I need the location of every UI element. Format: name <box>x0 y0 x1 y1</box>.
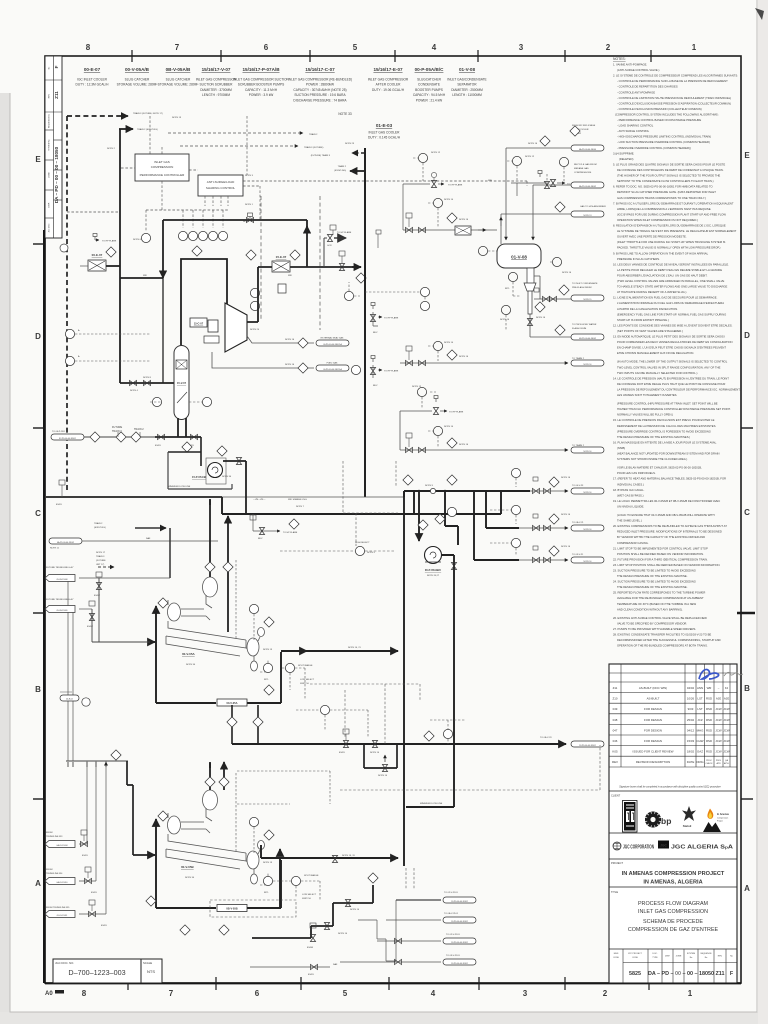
gas out to H2S absorber <box>501 214 578 244</box>
svg-text:NOTE 12: NOTE 12 <box>525 156 535 158</box>
svg-text:LENGTH : 11000MM: LENGTH : 11000MM <box>452 93 482 97</box>
svg-text:ESDV: ESDV <box>308 974 314 976</box>
svg-text:POWER : 3.9 kW: POWER : 3.9 kW <box>249 93 274 97</box>
svg-text:ESDV: ESDV <box>339 752 345 754</box>
svg-text:00-PD-00-00-18002-A: 00-PD-00-00-18002-A <box>323 343 342 346</box>
svg-text:16. PLAN MASSIQUE EN ATTENTE D: 16. PLAN MASSIQUE EN ATTENTE DE LA MSE A… <box>613 440 717 444</box>
EQUIPMENT HEADERS <box>76 67 487 140</box>
staircase distribution <box>252 885 373 938</box>
discharge trunk <box>364 148 366 497</box>
svg-text:5: 5 <box>343 989 348 998</box>
flare stub F5 <box>417 387 426 396</box>
svg-text:JCW: JCW <box>715 707 722 711</box>
svg-text:TRAIN 3: TRAIN 3 <box>96 555 105 558</box>
svg-text:NOTE 13: NOTE 13 <box>172 117 182 119</box>
svg-text:18-PD-00-00-18102: 18-PD-00-00-18102 <box>451 901 468 903</box>
svg-text:18-PD-00-00-18502: 18-PD-00-00-18502 <box>579 745 596 747</box>
svg-text:FUTURE: FUTURE <box>112 426 122 429</box>
svg-text:GOV: GOV <box>327 245 332 247</box>
svg-text:FOR DESIGN: FOR DESIGN <box>644 728 662 732</box>
svg-text:8. REGULATION D'EXPANSION A U: 8. REGULATION D'EXPANSION A UTILISER LOR… <box>613 224 726 228</box>
svg-text:POWER : 28800kW: POWER : 28800kW <box>306 83 334 87</box>
svg-text:NOTE 13: NOTE 13 <box>263 649 273 651</box>
svg-text:NOTE 10: NOTE 10 <box>350 909 360 911</box>
svg-text:(EXIST-NG): (EXIST-NG) <box>334 170 346 172</box>
svg-text:RSD: RSD <box>706 728 712 732</box>
svg-text:FUTURE TRUNKLINE 6-40": FUTURE TRUNKLINE 6-40" <box>46 567 74 569</box>
svg-text:B: B <box>35 685 41 694</box>
svg-text:Z11: Z11 <box>613 686 618 690</box>
svg-text:JCW: JCW <box>723 728 730 732</box>
svg-text:CAPACITY : 11.3 M³/H: CAPACITY : 11.3 M³/H <box>245 88 278 92</box>
svg-text:TO 0B-V-23: TO 0B-V-23 <box>540 737 552 739</box>
svg-text:NOTE 16: NOTE 16 <box>584 492 592 494</box>
svg-text:A0: A0 <box>45 991 53 997</box>
svg-text:NTS: NTS <box>147 969 155 974</box>
svg-text:3: 3 <box>523 989 528 998</box>
svg-text:- CONTROLE D'EXCLUSION PRESSIO: - CONTROLE D'EXCLUSION PRESSION (COLLECT… <box>617 107 702 111</box>
svg-text:1. VANNE ANTI-POMPAGE.: 1. VANNE ANTI-POMPAGE. <box>613 63 647 67</box>
svg-text:- LOW SUCTION PRESSURE OVERRID: - LOW SUCTION PRESSURE OVERRIDE CONTROL … <box>617 140 710 144</box>
svg-text:(PRESSURE OVERRIDE CONTROL IS: (PRESSURE OVERRIDE CONTROL IS FORESEEN T… <box>617 429 711 433</box>
svg-text:EN CHAMP DIVISE. L'UN D'EUX PE: EN CHAMP DIVISE. L'UN D'EUX PEUT ETRE CH… <box>617 346 726 350</box>
pump circuit <box>418 491 420 541</box>
svg-text:MGS: MGS <box>614 953 619 955</box>
svg-text:GAZ: GAZ <box>697 750 703 754</box>
svg-text:2: 2 <box>606 43 611 52</box>
svg-text:Signature boxes shall be compl: Signature boxes shall be completed in ac… <box>619 786 721 789</box>
svg-text:05-01-15011: 05-01-15011 <box>57 915 68 917</box>
svg-text:(PRESSURE CONTROL (HIP) PRESSU: (PRESSURE CONTROL (HIP) PRESSURE AT TRAI… <box>617 402 718 406</box>
svg-text:15/16/17-P-07A/B: 15/16/17-P-07A/B <box>242 67 280 72</box>
svg-text:JPC PROJECT: JPC PROJECT <box>628 953 642 955</box>
svg-text:DATE: DATE <box>687 760 695 764</box>
svg-text:04/02: 04/02 <box>687 686 695 690</box>
svg-text:9. BYPASS LINE TO ALLOW OPERA: 9. BYPASS LINE TO ALLOW OPERATION IN THE… <box>613 251 709 255</box>
svg-text:START-UP IS FROM EXPORT PIPELI: START-UP IS FROM EXPORT PIPELINE.) <box>617 318 669 322</box>
svg-text:AS-BUILT (DOC WIN): AS-BUILT (DOC WIN) <box>639 686 667 690</box>
svg-text:PACKED. THROTTLE VALVE IS NORM: PACKED. THROTTLE VALVE IS NORMALLY OPEN … <box>617 246 721 250</box>
svg-text:SWITCH: SWITCH <box>300 683 309 685</box>
svg-text:0A-PD-00-00-18004: 0A-PD-00-00-18004 <box>579 148 596 151</box>
svg-text:SWITCH: SWITCH <box>302 898 311 900</box>
svg-text:TO HP FLARE: TO HP FLARE <box>337 231 352 234</box>
svg-text:NOTE 10: NOTE 10 <box>338 933 348 935</box>
svg-text:- CONTROLE ANTI-POMPAGE: - CONTROLE ANTI-POMPAGE <box>617 90 655 94</box>
main gas path to suction header <box>46 496 222 498</box>
scrubber 15-V-07 <box>174 346 189 420</box>
svg-text:DE CONSIGNE DOIT ETRE REGLE PL: DE CONSIGNE DOIT ETRE REGLE PLUS HAUT QU… <box>617 382 725 386</box>
svg-text:TWO LEVEL CONTROL VALVES IN SP: TWO LEVEL CONTROL VALVES IN SPLIT RANGE … <box>617 365 721 369</box>
svg-text:- ANTI SURGE CONTROL: - ANTI SURGE CONTROL <box>617 129 650 133</box>
svg-text:(EXIST-NG): (EXIST-NG) <box>94 527 106 529</box>
svg-text:TO HP FLARE: TO HP FLARE <box>384 370 399 373</box>
svg-text:SCRUBBER BOOSTER PUMPS: SCRUBBER BOOSTER PUMPS <box>238 83 284 87</box>
svg-text:MINIMUM FLOW LINE: MINIMUM FLOW LINE <box>420 803 443 805</box>
svg-text:00-P-05A/B/C: 00-P-05A/B/C <box>425 568 441 572</box>
separator 00-V-08 <box>497 244 541 268</box>
sonatrach logo <box>623 801 638 833</box>
level instruments <box>508 272 517 281</box>
svg-text:046: 046 <box>613 739 618 743</box>
svg-text:KJ: KJ <box>725 686 729 690</box>
revision table <box>609 664 737 983</box>
slug catcher B glyph <box>166 790 265 884</box>
controller box B1 <box>135 154 189 181</box>
svg-text:AFTER COOLER: AFTER COOLER <box>376 83 401 87</box>
svg-text:3: 3 <box>519 43 524 52</box>
bp logo <box>645 812 661 828</box>
svg-text:NOTE 12: NOTE 12 <box>412 386 422 388</box>
svg-text:PROC: PROC <box>706 760 712 762</box>
SC-B battery box <box>156 825 281 908</box>
svg-text:CODE: CODE <box>632 957 638 959</box>
svg-text:BDV: BDV <box>373 332 378 334</box>
svg-text:L'ALIMENTATION NORMALE DU FUEL: L'ALIMENTATION NORMALE DU FUEL GAZ LORS … <box>617 301 724 305</box>
svg-text:25/02: 25/02 <box>687 718 695 722</box>
svg-text:TWO INPUTS CAN BE MANUALLY SEL: TWO INPUTS CAN BE MANUALLY SELECTED FOR … <box>617 371 698 375</box>
svg-text:27. PUMPS TO BE PROVIDED WITH: 27. PUMPS TO BE PROVIDED WITH VARIABLE S… <box>613 627 696 631</box>
svg-text:NOTE 26,27: NOTE 26,27 <box>427 575 440 577</box>
svg-text:0A-PD-00-00-18002: 0A-PD-00-00-18002 <box>579 185 596 188</box>
PSV pair on feed <box>406 227 413 232</box>
cooler 01-E-03 <box>455 226 471 235</box>
svg-text:SYSTEM No: SYSTEM No <box>49 138 51 150</box>
svg-text:01-E-03: 01-E-03 <box>376 123 393 128</box>
svg-text:22. FUTURE PROVISION FOR A THI: 22. FUTURE PROVISION FOR A THIRD IDENTIC… <box>613 557 708 561</box>
svg-text:RSD: RSD <box>706 697 712 701</box>
svg-text:21. LIMIT STOP TO BE IMPLEMENT: 21. LIMIT STOP TO BE IMPLEMENTED FOR CON… <box>613 546 708 550</box>
svg-text:7. BYPASS IGC A UTILISER LORS: 7. BYPASS IGC A UTILISER LORS DU DEMARRA… <box>613 201 734 205</box>
svg-text:18/02: 18/02 <box>687 750 695 754</box>
svg-text:RETROFIT SLUG CATCHER PRESSURE: RETROFIT SLUG CATCHER PRESSURE GATE. (DA… <box>617 190 716 194</box>
svg-text:D: D <box>35 332 41 341</box>
split range cluster A <box>285 663 294 672</box>
svg-text:ESDV: ESDV <box>155 445 161 447</box>
svg-text:10/26: 10/26 <box>687 697 695 701</box>
svg-text:JGC DOC: JGC DOC <box>49 223 51 233</box>
JGC strip <box>613 842 621 850</box>
svg-text:CAPACITY : 30745 AM³/H (NOTE 2: CAPACITY : 30745 AM³/H (NOTE 25) <box>293 88 346 92</box>
big liquid header y744 <box>232 743 566 745</box>
svg-text:HIGH SELECT: HIGH SELECT <box>355 542 370 544</box>
svg-text:SPLIT RANGE: SPLIT RANGE <box>304 874 319 877</box>
svg-text:NOTE 2: NOTE 2 <box>107 148 116 150</box>
statoil logo <box>682 806 696 821</box>
svg-text:LA PETITE POUR REGULER LE DEBI: LA PETITE POUR REGULER LE DEBIT D'EAU EN… <box>617 268 722 272</box>
svg-text:bp: bp <box>661 816 671 826</box>
SC-A risers up <box>210 500 228 632</box>
svg-text:STORAGE VOLUME: 280M³: STORAGE VOLUME: 280M³ <box>117 83 158 87</box>
svg-text:TO 0B-V-21: TO 0B-V-21 <box>572 522 584 524</box>
svg-text:047: 047 <box>613 728 618 732</box>
svg-text:TO TRAIN 2: TO TRAIN 2 <box>572 444 585 447</box>
svg-text:NOTE 16: NOTE 16 <box>584 561 592 563</box>
svg-text:NOTE 6: NOTE 6 <box>133 239 142 241</box>
svg-text:14. LE CONTROLE DE PRESSION (H: 14. LE CONTROLE DE PRESSION (HAUT) EN PR… <box>613 376 729 380</box>
svg-text:MHG: MHG <box>697 728 704 732</box>
svg-text:HIGHER THAN IGC PERFORMANCE CO: HIGHER THAN IGC PERFORMANCE CONTROLLER D… <box>617 407 731 411</box>
svg-text:- PRESSURE OVERRIDE CONTROL (C: - PRESSURE OVERRIDE CONTROL (COMMON HEAD… <box>617 146 691 150</box>
NOTE10 bypass U-loop <box>364 744 397 768</box>
svg-text:JCW: JCW <box>715 739 722 743</box>
svg-text:ESDV: ESDV <box>91 892 97 894</box>
svg-text:GAS TO H2S ABSORBER: GAS TO H2S ABSORBER <box>580 205 606 208</box>
svg-text:NOTE 16: NOTE 16 <box>561 546 571 548</box>
svg-text:NOTE 11: NOTE 11 <box>50 548 60 550</box>
svg-text:TITLE: TITLE <box>611 890 618 894</box>
svg-text:VOIR LE BILAN MATIERE ET CHALE: VOIR LE BILAN MATIERE ET CHALEUR, 5825-0… <box>617 466 702 470</box>
svg-text:CONDENSATE: CONDENSATE <box>418 83 440 87</box>
svg-text:JGC: JGC <box>660 844 667 848</box>
svg-text:INLET GAS COMPRESSOR (RE-BUNDL: INLET GAS COMPRESSOR (RE-BUNDLED) <box>288 78 352 82</box>
svg-text:ETRE CHOISIS MANUELLEMENT AUX: ETRE CHOISIS MANUELLEMENT AUX FIN DE REG… <box>617 351 694 355</box>
svg-text:18. BYPASS IGC CANAL.: 18. BYPASS IGC CANAL. <box>613 488 645 492</box>
svg-text:15. LE CONTROLE DE PRESSION D': 15. LE CONTROLE DE PRESSION D'EXCLUSION … <box>613 418 715 422</box>
svg-text:NOTE 3: NOTE 3 <box>245 175 254 177</box>
svg-text:TO 00-P-2B1: TO 00-P-2B1 <box>52 431 66 433</box>
svg-text:B: B <box>744 684 750 693</box>
svg-text:OPERATION WHEN INLET COMPRESSI: OPERATION WHEN INLET COMPRESSION IS NOT … <box>617 218 698 222</box>
svg-text:LES VANNES SONT TOTALEMENT OUV: LES VANNES SONT TOTALEMENT OUVERTES. <box>617 393 677 397</box>
svg-text:ZONE: ZONE <box>676 956 682 958</box>
svg-text:SEPARATOR: SEPARATOR <box>457 83 477 87</box>
branch b1 <box>533 488 540 493</box>
svg-text:NOTE 16: NOTE 16 <box>584 529 592 531</box>
svg-text:ESDV: ESDV <box>87 626 93 628</box>
svg-text:SPLIT RANGE: SPLIT RANGE <box>298 664 313 667</box>
compressor 15-C-07 <box>225 303 247 352</box>
svg-text:F: F <box>54 65 59 68</box>
svg-text:23. SUCTION PRESSURE TO BE LIM: 23. SUCTION PRESSURE TO BE LIMITED TO AV… <box>613 569 696 573</box>
svg-text:01-V-08: 01-V-08 <box>459 67 476 72</box>
in amenas logo <box>703 809 721 833</box>
svg-text:DOC.: DOC. <box>653 953 658 955</box>
svg-text:IN AMENAS, ALGERIA: IN AMENAS, ALGERIA <box>643 880 702 886</box>
svg-text:INLET GAS COMPRESSION: INLET GAS COMPRESSION <box>638 909 708 915</box>
svg-text:FOR DESIGN: FOR DESIGN <box>644 739 662 743</box>
branch b2 <box>486 491 519 528</box>
svg-text:LST: LST <box>697 707 703 711</box>
svg-text:SEQUENCE No: SEQUENCE No <box>49 113 51 128</box>
svg-text:FROM: FROM <box>46 832 53 834</box>
svg-text:UN NIVEAU LIQUIDE.: UN NIVEAU LIQUIDE. <box>617 505 644 509</box>
svg-text:TO HP FLARE: TO HP FLARE <box>448 184 463 187</box>
svg-text:ORIG: ORIG <box>696 760 704 764</box>
svg-text:10. LES DEUX VANNES DE CONTROL: 10. LES DEUX VANNES DE CONTROLE DE NIVEA… <box>613 262 729 266</box>
split range cluster B <box>291 876 300 885</box>
svg-text:NOTE 8: NOTE 8 <box>143 377 152 379</box>
branch b3 <box>474 491 519 560</box>
svg-text:17. (REFER TO HEAT AND MATERIA: 17. (REFER TO HEAT AND MATERIAL BALANCE … <box>613 477 726 481</box>
svg-text:ANTI-SURGE/LOAD: ANTI-SURGE/LOAD <box>207 180 235 184</box>
TITLEBLOCK <box>609 664 743 983</box>
svg-text:LST: LST <box>697 697 703 701</box>
corner mark top right <box>755 8 764 20</box>
svg-text:15-P-07A/B: 15-P-07A/B <box>192 475 206 479</box>
svg-text:3.&4.SUPPRIME.: 3.&4.SUPPRIME. <box>613 151 635 155</box>
svg-text:NAF: NAF <box>333 963 338 966</box>
svg-text:MINIMUM FLOW LINE: MINIMUM FLOW LINE <box>168 486 191 488</box>
scrubber inlet w valves <box>120 382 174 384</box>
svg-text:(HEAT BALANCE NOT UPDATED FOR: (HEAT BALANCE NOT UPDATED FOR DOWNSTREAM… <box>617 452 720 456</box>
suction header <box>404 490 530 492</box>
svg-text:INLET GAS COOLER: INLET GAS COOLER <box>369 131 401 135</box>
instrument row <box>141 231 227 256</box>
svg-text:8: 8 <box>86 43 91 52</box>
svg-text:INLET GAS COMPRESSOR: INLET GAS COMPRESSOR <box>368 78 409 82</box>
svg-text:6: 6 <box>264 43 269 52</box>
svg-text:IGC INLET COOLER: IGC INLET COOLER <box>77 78 108 82</box>
svg-text:NOTE 16: NOTE 16 <box>459 219 469 221</box>
svg-text:00-V-05B: 00-V-05B <box>181 865 195 869</box>
svg-text:NOTE 16: NOTE 16 <box>459 444 469 446</box>
svg-text:SHARING CONTROL: SHARING CONTROL <box>206 186 236 190</box>
fuel gas row <box>212 352 314 368</box>
svg-text:7: 7 <box>169 989 174 998</box>
svg-text:11. LIGNE D'ALIMENTATION EN FU: 11. LIGNE D'ALIMENTATION EN FUEL GAZ DE … <box>613 296 718 300</box>
diamonds near SC-B <box>146 896 156 906</box>
svg-text:SLUG CATCHER: SLUG CATCHER <box>125 78 150 82</box>
svg-text:TO 03-V-2101: TO 03-V-2101 <box>446 955 460 957</box>
svg-text:NAF: NAF <box>146 537 151 540</box>
svg-text:NOTE 10: NOTE 10 <box>378 775 388 777</box>
svg-text:2. LE SYSTEME DE CONTROLE DE: 2. LE SYSTEME DE CONTROLE DE COMPRESSEUR… <box>613 74 738 78</box>
svg-text:2: 2 <box>603 989 608 998</box>
svg-text:REV.: REV. <box>49 93 51 98</box>
column numbers top <box>86 43 697 52</box>
svg-text:(IGC BYPASS FOR USE DURING COM: (IGC BYPASS FOR USE DURING COMPRESSION P… <box>617 212 726 216</box>
svg-text:TO HP FLARE: TO HP FLARE <box>449 411 464 414</box>
svg-text:VALVE TO BE SPECIFIED BY COMPR: VALVE TO BE SPECIFIED BY COMPRESSOR VEND… <box>617 621 687 625</box>
svg-text:NOTE 16: NOTE 16 <box>584 451 592 453</box>
svg-text:NOTE 23: NOTE 23 <box>345 143 355 145</box>
svg-text:18-PD-00-00-18102: 18-PD-00-00-18102 <box>451 921 468 923</box>
svg-text:Compression: Compression <box>717 817 728 820</box>
svg-text:(TWO LEVEL CONTROL VALVES ARE: (TWO LEVEL CONTROL VALVES ARE ARRANGED I… <box>617 279 725 283</box>
svg-text:DISP.: DISP. <box>49 202 51 207</box>
svg-text:9/03: 9/03 <box>688 707 694 711</box>
svg-text:PRESSURE IN SLUG CATCHERS.: PRESSURE IN SLUG CATCHERS. <box>617 257 660 261</box>
svg-text:- PERFORMANCE CONTROL BASED ON: - PERFORMANCE CONTROL BASED ON DISCHARGE… <box>617 118 701 122</box>
svg-text:NOTE 14: NOTE 14 <box>444 199 454 201</box>
svg-text:K05: K05 <box>612 750 618 754</box>
SC-B risers up <box>210 763 224 790</box>
svg-text:A: A <box>744 884 750 893</box>
svg-text:BDV: BDV <box>373 385 378 387</box>
svg-text:82-PD-00-00-18502: 82-PD-00-00-18502 <box>59 438 76 440</box>
svg-text:AJE: AJE <box>716 697 721 701</box>
anti-surge recycle <box>163 220 307 267</box>
svg-text:23. LIMIT STOP POSITION SHALL: 23. LIMIT STOP POSITION SHALL BE DERIVED… <box>613 563 721 567</box>
svg-text:5. LE PLUS GRAND DES QUATRE S: 5. LE PLUS GRAND DES QUATRE SIGNAUX DE S… <box>613 163 725 167</box>
svg-text:NOTE 15, 31: NOTE 15, 31 <box>342 855 356 857</box>
svg-text:6: 6 <box>255 989 260 998</box>
svg-text:01-V-08: 01-V-08 <box>511 255 527 260</box>
svg-text:NOTE 13: NOTE 13 <box>584 215 592 217</box>
svg-text:(SET POINTS OF VENT VALVES ARE: (SET POINTS OF VENT VALVES ARE STAGGERED… <box>617 329 683 333</box>
border ticks bottom <box>128 977 649 990</box>
svg-text:LE SYSTEME DE TRAVAIL NE S'EST: LE SYSTEME DE TRAVAIL NE S'EST PAS PRESE… <box>617 229 737 233</box>
svg-text:NOTE 16: NOTE 16 <box>285 339 295 341</box>
high select cluster <box>355 546 364 555</box>
svg-text:15/16/17-E-07: 15/16/17-E-07 <box>373 67 403 72</box>
row letters <box>35 151 750 893</box>
svg-text:E: E <box>35 155 41 164</box>
svg-text:EXTERNAL SEAL GAS: EXTERNAL SEAL GAS <box>321 337 344 340</box>
svg-text:PROJECT: PROJECT <box>611 861 624 865</box>
border ticks sides <box>33 244 755 799</box>
battery limit dashed <box>67 115 128 117</box>
left riser bundle <box>66 760 128 762</box>
svg-text:19. LE LOGIC PERMETTRA LES 00-: 19. LE LOGIC PERMETTRA LES 00-V-05A/B ET… <box>613 499 720 503</box>
svg-text:JGC ALGERIA SpA: JGC ALGERIA SpA <box>671 845 734 851</box>
svg-text:(NSIB): (NSIB) <box>617 446 625 450</box>
left doc number strip <box>45 56 62 238</box>
svg-text:- CONTROLE D'EXCLUSION BASSE P: - CONTROLE D'EXCLUSION BASSE PRESSION D'… <box>617 101 731 105</box>
svg-text:THE DESIGN PRESSURE OF THE EXI: THE DESIGN PRESSURE OF THE EXISTING MACH… <box>617 574 688 578</box>
TO TRAIN 2 line 2 <box>400 449 568 451</box>
svg-text:TO 00-V-23: TO 00-V-23 <box>572 485 584 487</box>
svg-text:AVAILABLE FOR THE RE-BUNDLED C: AVAILABLE FOR THE RE-BUNDLED COMPRESSOR … <box>617 596 704 600</box>
svg-text:NOTE 17: NOTE 17 <box>96 552 106 554</box>
svg-text:25. REPORTED FLOW RATE CORRESP: 25. REPORTED FLOW RATE CORRESPONDS TO TH… <box>613 591 705 595</box>
svg-text:00-P-05A/B/C: 00-P-05A/B/C <box>415 67 445 72</box>
svg-text:CODE: CODE <box>613 957 619 959</box>
controller box B2 <box>198 175 243 196</box>
svg-text:REV: REV <box>612 760 618 764</box>
svg-text:In Amenas: In Amenas <box>717 813 730 816</box>
svg-text:NOTE 16: NOTE 16 <box>528 143 538 145</box>
svg-text:ESDV: ESDV <box>82 855 88 857</box>
svg-text:REV.: REV. <box>718 956 723 958</box>
svg-text:THE SAME LEVEL.): THE SAME LEVEL.) <box>617 519 642 523</box>
svg-text:BDV: BDV <box>258 538 263 540</box>
svg-text:FROM: FROM <box>46 869 53 871</box>
svg-text:1: 1 <box>692 43 697 52</box>
svg-text:C: C <box>744 508 750 517</box>
svg-text:00-PD-00-00-18025-A: 00-PD-00-00-18025-A <box>323 368 342 371</box>
svg-text:INTL: INTL <box>505 288 511 290</box>
svg-text:INTL: INTL <box>264 892 270 894</box>
SC-A battery box <box>156 612 281 703</box>
svg-text:DA – PD – 00 – 00 – 18050: DA – PD – 00 – 00 – 18050 <box>648 971 714 977</box>
svg-text:FUEL GAS: FUEL GAS <box>327 362 338 365</box>
svg-text:ZONE: ZONE <box>49 172 51 178</box>
svg-text:NORMALLY VALVES WILL BE FULLY: NORMALLY VALVES WILL BE FULLY OPEN.) <box>617 413 673 417</box>
svg-text:JCW: JCW <box>723 739 730 743</box>
svg-text:Z11: Z11 <box>54 91 59 99</box>
svg-text:POUR ABSORBER L'EVACUATION DE: POUR ABSORBER L'EVACUATION DE L'EAU. UN … <box>617 274 708 278</box>
svg-text:DIAMETER : 3700MM: DIAMETER : 3700MM <box>200 88 232 92</box>
svg-text:TO HP FLARE: TO HP FLARE <box>283 531 298 534</box>
svg-text:SUCTION SCRUBBER: SUCTION SCRUBBER <box>200 83 234 87</box>
svg-text:TO 03-V-21: TO 03-V-21 <box>572 554 584 556</box>
svg-text:- CONTROLE DE REPARTITION DES: - CONTROLE DE REPARTITION DES CHARGES <box>617 85 678 89</box>
svg-text:Z10: Z10 <box>613 697 618 701</box>
svg-text:RSD: RSD <box>706 739 712 743</box>
svg-text:INTL: INTL <box>264 679 270 681</box>
flare stubs F3 F4 <box>365 230 430 387</box>
svg-text:WIF: WIF <box>488 180 493 182</box>
svg-text:JCW: JCW <box>715 718 722 722</box>
svg-text:WIF SPARGE LNG: WIF SPARGE LNG <box>288 498 307 501</box>
separator feed line <box>403 229 497 231</box>
svg-text:ESDV: ESDV <box>101 925 107 927</box>
DIAGRAM PART A : upper train <box>60 112 527 497</box>
svg-text:NOTE 9: NOTE 9 <box>425 485 434 487</box>
svg-text:28. EXISTING CONDENSATE TRANSF: 28. EXISTING CONDENSATE TRANSFER FACILIT… <box>613 633 711 637</box>
